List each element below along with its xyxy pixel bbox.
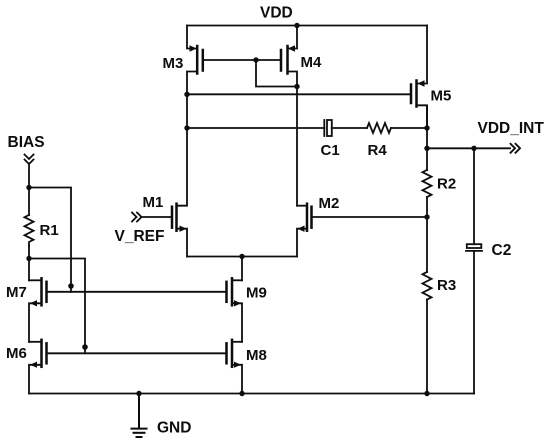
transistor M5 bbox=[411, 26, 451, 129]
transistor M9 bbox=[227, 278, 267, 342]
transistor M2 bbox=[297, 195, 339, 257]
wire M5 drain down bbox=[426, 106, 428, 170]
ground GND symbol bbox=[132, 394, 192, 438]
transistor M1 bbox=[143, 94, 188, 256]
wire ground rail bbox=[29, 393, 474, 395]
transistor M3 bbox=[163, 26, 203, 95]
wire gate to M4 drain bbox=[256, 60, 297, 87]
svg-text:R3: R3 bbox=[437, 277, 456, 294]
node M4 drain junction bbox=[294, 84, 299, 89]
node M5 drain / C1R4 bbox=[424, 125, 429, 130]
wire VDD top rail bbox=[187, 25, 427, 27]
transistor M8 bbox=[227, 340, 267, 394]
resistor R3 bbox=[423, 272, 457, 300]
svg-text:BIAS: BIAS bbox=[8, 134, 45, 151]
svg-text:M1: M1 bbox=[143, 194, 164, 211]
wire BIAS to M7/M9 gates bbox=[29, 188, 71, 292]
node feedback bbox=[424, 214, 429, 219]
node VDD-M4 junction bbox=[294, 23, 299, 28]
svg-text:M8: M8 bbox=[246, 347, 267, 364]
svg-text:M5: M5 bbox=[431, 88, 452, 105]
svg-text:M4: M4 bbox=[301, 54, 322, 71]
wire feedback to M2 gate bbox=[312, 216, 428, 218]
svg-text:M6: M6 bbox=[6, 345, 27, 362]
wire M6-M8 gates bbox=[47, 352, 227, 354]
svg-text:VDD: VDD bbox=[260, 5, 293, 22]
resistor R2 bbox=[423, 170, 457, 197]
capacitor C2 bbox=[466, 148, 511, 393]
svg-text:M9: M9 bbox=[246, 285, 267, 302]
wire diff pair tail bbox=[187, 256, 297, 258]
capacitor C1 bbox=[321, 120, 368, 159]
wire tail to M9 bbox=[241, 257, 243, 281]
svg-text:R1: R1 bbox=[40, 222, 59, 239]
node BIAS branch bbox=[26, 185, 31, 190]
node C2 tap bbox=[471, 146, 476, 151]
net BIAS input bbox=[8, 134, 45, 215]
svg-text:R4: R4 bbox=[368, 142, 388, 159]
node arrow-dot on M7 gate line bbox=[68, 283, 74, 289]
node arrow-dot on M6 gate line bbox=[82, 344, 88, 350]
wire M7-M9 gates bbox=[47, 291, 227, 293]
svg-text:C2: C2 bbox=[492, 242, 512, 259]
node gate junction bbox=[253, 57, 258, 62]
wire M4 drain to M2 drain bbox=[296, 87, 298, 206]
svg-text:R2: R2 bbox=[437, 176, 456, 193]
wire C1 R4 branch bbox=[187, 127, 324, 129]
transistor M7 bbox=[6, 278, 47, 342]
svg-text:C1: C1 bbox=[321, 142, 340, 159]
wire R1 to M7 bbox=[28, 246, 30, 280]
resistor R4 bbox=[367, 123, 427, 159]
wire R1 bottom to M6/M8 gates bbox=[29, 259, 85, 354]
transistor M6 bbox=[6, 340, 47, 394]
svg-text:GND: GND bbox=[157, 420, 191, 437]
wire M3-M4 gate bbox=[203, 59, 281, 61]
svg-text:VDD_INT: VDD_INT bbox=[478, 120, 545, 137]
net V_REF input bbox=[115, 213, 173, 246]
wire R2 to node bbox=[426, 197, 428, 272]
node M3 drain junction bbox=[184, 92, 189, 97]
node R1 bottom bbox=[26, 256, 31, 261]
wire R3 to ground rail bbox=[426, 300, 428, 394]
svg-text:V_REF: V_REF bbox=[115, 228, 165, 245]
svg-text:M2: M2 bbox=[319, 195, 340, 212]
svg-text:M3: M3 bbox=[163, 55, 184, 72]
transistor M4 bbox=[281, 26, 322, 87]
resistor R1 bbox=[25, 215, 59, 246]
net VDD_INT output bbox=[427, 120, 544, 153]
svg-text:M7: M7 bbox=[6, 284, 27, 301]
wire M3 drain to M5 gate bbox=[187, 93, 411, 95]
